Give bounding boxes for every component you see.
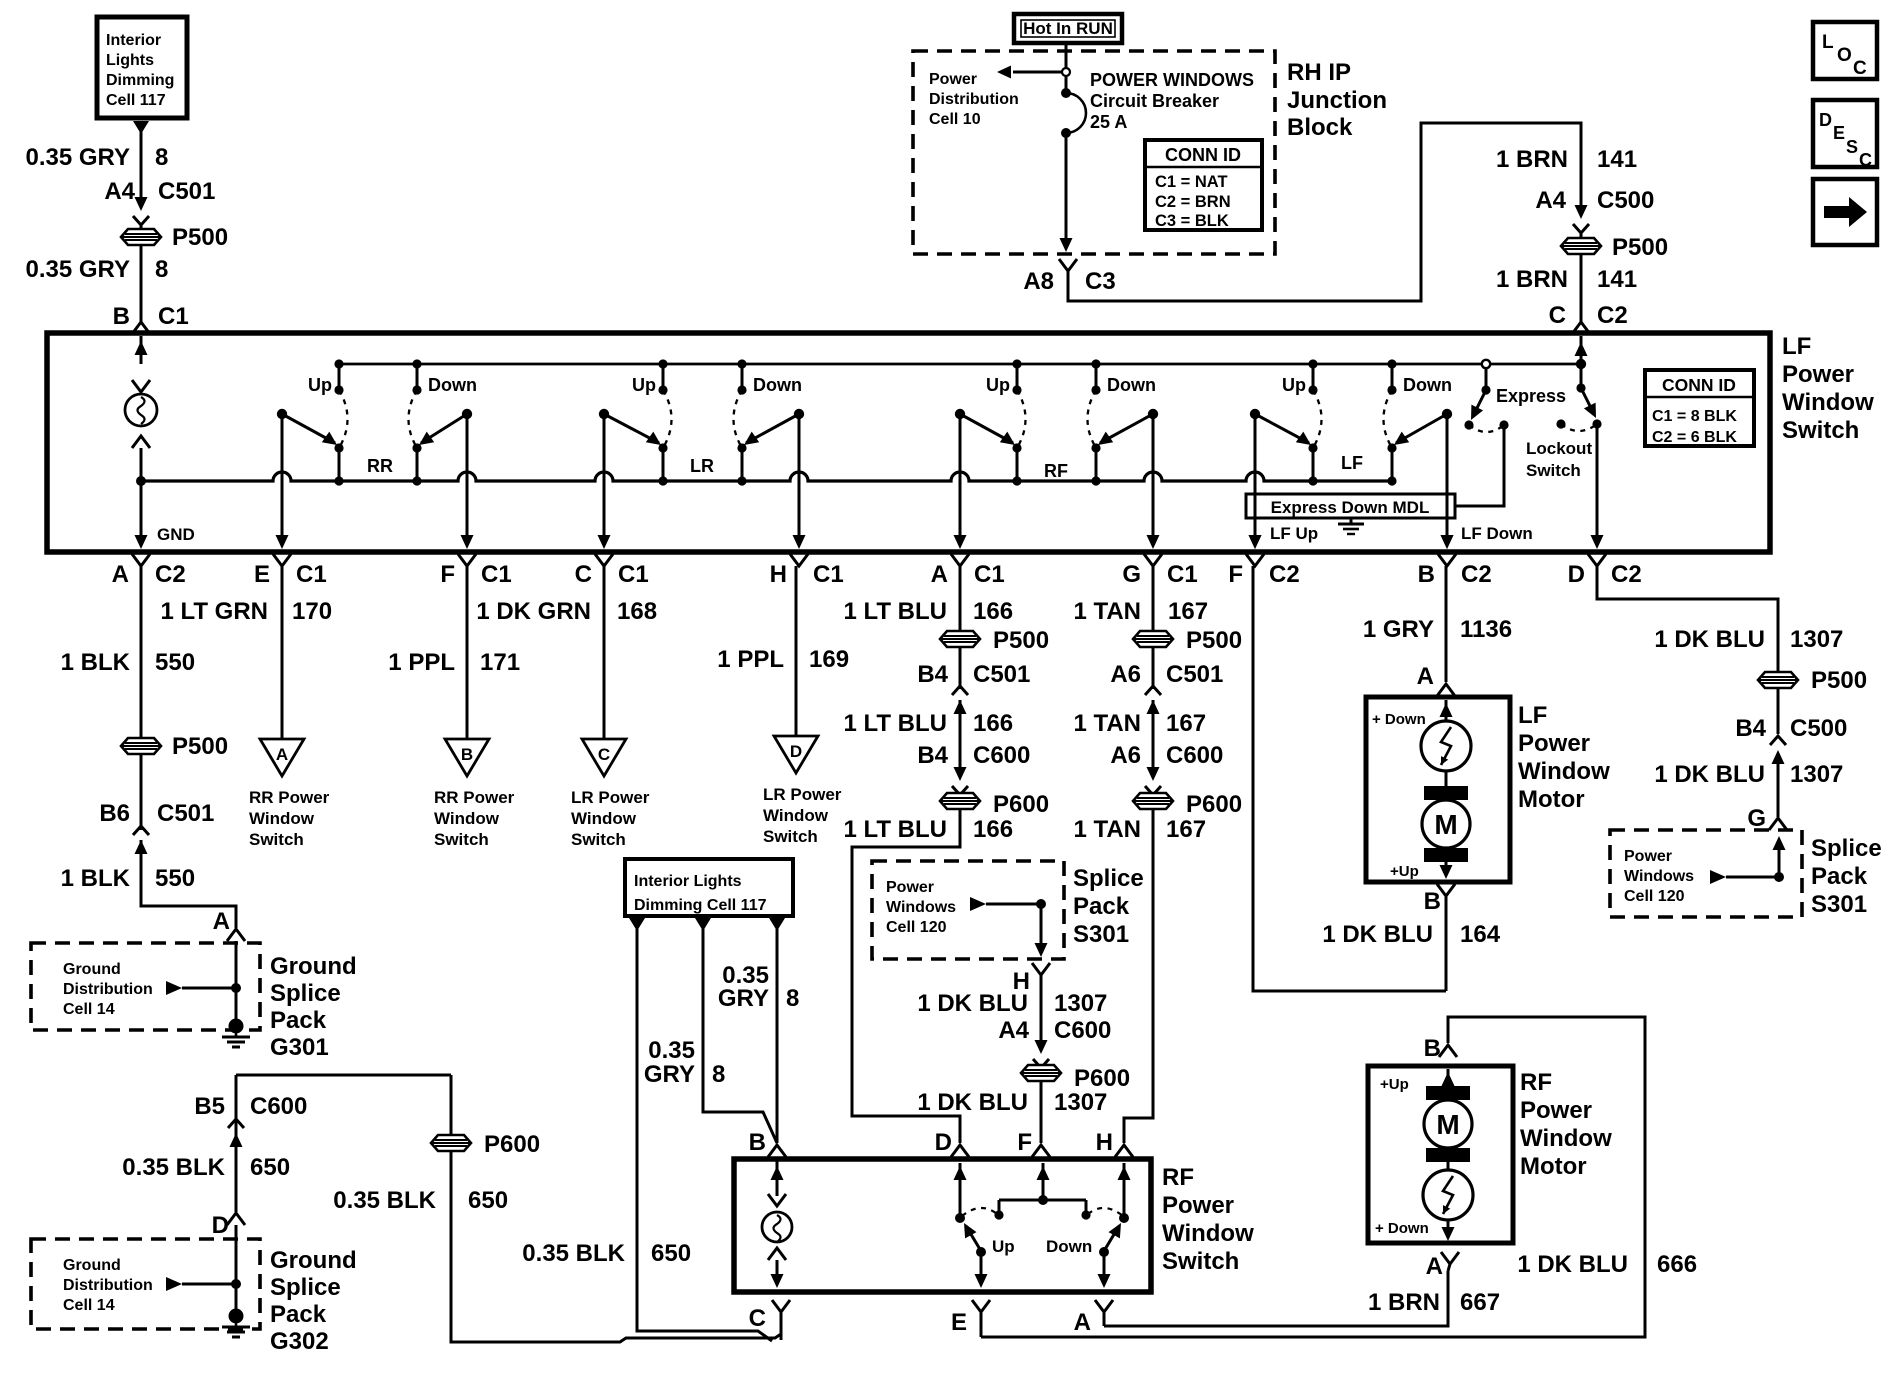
wire to P600: [959, 794, 962, 795]
svg-text:171: 171: [480, 649, 520, 676]
svg-text:P500: P500: [1186, 627, 1242, 654]
pass-through grommet P600 (middle): [1021, 1065, 1061, 1081]
icon box LOC: [1813, 22, 1877, 79]
switch LF Down blade: [1396, 414, 1447, 443]
svg-text:B6: B6: [99, 800, 130, 827]
wire 1 TAN 167 from P600 to RF switch pin H: [1124, 809, 1153, 1143]
dashed box: splice pack S301 middle (Power Windows Cell 120): [872, 861, 1064, 959]
svg-text:Cell 14: Cell 14: [63, 1297, 115, 1314]
svg-text:1 GRY: 1 GRY: [1363, 616, 1434, 643]
output pin C of connector C1 at LF switch bottom: [595, 554, 613, 566]
triangle connector B: [445, 739, 489, 776]
wire 1 BLK 550 to ground splice pack G301: [141, 840, 236, 928]
pass-through grommet P600 (TAN): [1133, 793, 1173, 809]
svg-text:C500: C500: [1790, 715, 1847, 742]
pass-through grommet P500 (left): [121, 229, 161, 245]
switch LF Down tip stub to ground bus: [1391, 448, 1394, 481]
svg-text:M: M: [1434, 809, 1457, 840]
wire 0.35 GRY 8 from Interior Lights box to C501: [133, 121, 149, 134]
switch RR Up tip stub to ground bus: [338, 448, 341, 481]
svg-text:650: 650: [468, 1187, 508, 1214]
wire from Hot In RUN into junction block: [1065, 43, 1068, 93]
svg-text:C2: C2: [1269, 561, 1300, 588]
wire 1 BRN 141 from A8 C3 to C500 (routing): [1068, 123, 1581, 301]
switch LF Up contact stub: [1312, 364, 1315, 390]
output pin A of connector C2 at LF switch bottom: [132, 554, 150, 566]
svg-text:Distribution: Distribution: [63, 981, 153, 998]
wire into ground G301: [235, 941, 238, 1020]
svg-text:C1: C1: [481, 561, 512, 588]
svg-text:LF: LF: [1782, 333, 1811, 360]
svg-text:Pack: Pack: [270, 1007, 327, 1034]
svg-text:Power: Power: [1518, 730, 1590, 757]
svg-text:A: A: [1074, 1309, 1091, 1336]
switch LF Up dashed throw arc: [1313, 390, 1322, 448]
svg-text:C3 = BLK: C3 = BLK: [1155, 212, 1229, 230]
switch LR Down pivot wire to output pin: [798, 414, 801, 546]
pass-through grommet P500 (ground column): [121, 738, 161, 754]
svg-text:Up: Up: [986, 375, 1010, 395]
wire LF Down pivot through MDL box: [1446, 414, 1449, 546]
svg-text:8: 8: [155, 144, 168, 171]
svg-text:650: 650: [250, 1154, 290, 1181]
switch RR Up blade: [282, 414, 335, 443]
wire 1 BRN 667 from RF switch pin A to RF motor pin A: [1104, 1271, 1448, 1326]
svg-text:Window: Window: [434, 809, 500, 828]
svg-text:C501: C501: [157, 800, 214, 827]
svg-text:1307: 1307: [1790, 761, 1843, 788]
svg-text:550: 550: [155, 865, 195, 892]
svg-text:1 DK BLU: 1 DK BLU: [917, 990, 1028, 1017]
svg-text:S301: S301: [1073, 921, 1129, 948]
svg-text:Power: Power: [1520, 1097, 1592, 1124]
output pin G of connector C1 at LF switch bottom: [1144, 554, 1162, 566]
svg-text:F: F: [1228, 561, 1243, 588]
svg-text:1 LT BLU: 1 LT BLU: [843, 598, 947, 625]
wire 1 BRN 141 from P500 to LF switch pin C C2: [1580, 254, 1583, 322]
svg-text:Cell 10: Cell 10: [929, 111, 981, 128]
svg-text:POWER WINDOWS: POWER WINDOWS: [1090, 70, 1254, 90]
svg-text:Power: Power: [1782, 361, 1854, 388]
wire 0.35 BLK 650 through P600 to RF switch pin C: [450, 1075, 453, 1135]
wire 1 DK BLU 164 from LF motor pin B: [1445, 896, 1448, 991]
svg-text:G302: G302: [270, 1328, 329, 1355]
svg-text:166: 166: [973, 598, 1013, 625]
svg-text:LF: LF: [1518, 702, 1547, 729]
svg-text:Power: Power: [929, 71, 977, 88]
switch RR Down dashed throw arc: [409, 390, 418, 448]
svg-text:C3: C3: [1085, 268, 1116, 295]
triangle connector D: [774, 736, 818, 773]
ground splice pack G302 ground symbol: [229, 1309, 244, 1324]
svg-text:C600: C600: [250, 1093, 307, 1120]
switch LF Up tip stub to ground bus: [1312, 448, 1315, 481]
svg-text:1307: 1307: [1054, 990, 1107, 1017]
svg-text:1 DK BLU: 1 DK BLU: [1322, 921, 1433, 948]
svg-text:C2: C2: [155, 561, 186, 588]
svg-text:LF Up: LF Up: [1270, 524, 1318, 543]
switch RF Down blade: [1100, 414, 1153, 443]
component box: RF Power Window Motor: [1368, 1066, 1513, 1243]
wire 0.35 BLK 650 from P600 down and right to pin C: [451, 1151, 781, 1342]
svg-text:E: E: [254, 561, 270, 588]
svg-text:Splice: Splice: [270, 980, 341, 1007]
svg-text:P600: P600: [993, 791, 1049, 818]
svg-text:Switch: Switch: [763, 827, 818, 846]
svg-text:S301: S301: [1811, 891, 1867, 918]
svg-text:1 DK BLU: 1 DK BLU: [1517, 1251, 1628, 1278]
svg-text:Ground: Ground: [270, 1247, 357, 1274]
svg-text:D: D: [1819, 110, 1832, 130]
svg-text:B: B: [113, 303, 130, 330]
switch LF Up pivot wire to output pin: [1254, 414, 1257, 546]
svg-text:+ Down: + Down: [1372, 711, 1426, 728]
arrow into splice G301: [166, 981, 182, 995]
svg-text:8: 8: [155, 256, 168, 283]
LF motor thermal protector: [1421, 721, 1471, 771]
pass-through grommet P500 (TAN): [1133, 631, 1173, 647]
svg-text:Power: Power: [886, 879, 934, 896]
RF switch E output wire: [980, 1252, 983, 1283]
svg-text:0.35 BLK: 0.35 BLK: [333, 1187, 436, 1214]
switch RF Down pivot wire to output pin: [1152, 414, 1155, 546]
RF motor entry arrow and +Up label: [1447, 1069, 1450, 1086]
svg-text:L: L: [1822, 32, 1834, 53]
svg-text:A6: A6: [1110, 661, 1141, 688]
svg-text:Interior: Interior: [106, 32, 161, 49]
svg-text:Junction: Junction: [1287, 87, 1387, 114]
switch LF Down pivot wire to output pin: [1446, 414, 1449, 546]
svg-text:Up: Up: [632, 375, 656, 395]
wire from circuit breaker to pin A8 C3: [1065, 133, 1068, 240]
switch LR Up contact stub: [662, 364, 665, 390]
express down module box: Express Down MDL: [1246, 494, 1455, 518]
pass-through grommet P600 (LT BLU): [940, 793, 980, 809]
wire 1 PPL 169 from pin H C1 to LR switch connector D: [795, 566, 798, 736]
wire 1 BRN 141 down to C500: [1580, 150, 1583, 207]
svg-text:P500: P500: [993, 627, 1049, 654]
switch RF Up dashed throw arc: [1017, 390, 1026, 448]
switch LF Down dashed throw arc: [1384, 390, 1393, 448]
svg-text:+Up: +Up: [1390, 863, 1419, 880]
svg-text:C: C: [575, 561, 592, 588]
wire LF Up pivot through MDL box: [1254, 414, 1257, 546]
svg-text:LR: LR: [690, 456, 714, 476]
wire 1 GRY 1136 from pin B C2 to LF motor pin A: [1445, 566, 1448, 682]
wire 0.35 GRY 8 from C501 to P500: [140, 225, 143, 229]
svg-text:170: 170: [292, 598, 332, 625]
switch RF Down tip stub to ground bus: [1095, 448, 1098, 481]
wire 1 BLK 550 from pin A C2 to P500: [140, 566, 143, 737]
component box: Interior Lights Dimming Cell 117 (top left): [97, 17, 187, 118]
arrow into splice G302: [166, 1277, 182, 1291]
circuit breaker POWER WINDOWS 25 A: [1061, 88, 1071, 98]
svg-text:A8: A8: [1023, 268, 1054, 295]
svg-text:Down: Down: [1107, 375, 1156, 395]
svg-text:GRY: GRY: [644, 1061, 695, 1088]
RF switch D input and Up blade: [959, 1163, 962, 1218]
svg-text:550: 550: [155, 649, 195, 676]
svg-text:Pack: Pack: [1811, 863, 1868, 890]
component box: RF Power Window Switch: [734, 1159, 1151, 1292]
svg-text:H: H: [1096, 1129, 1113, 1156]
power feed box: Hot In RUN: [1014, 14, 1122, 43]
internal top bus of LF switch: [339, 363, 1581, 366]
svg-text:B: B: [1424, 1035, 1441, 1062]
wire 0.35 GRY 8 from dimming box (middle drop): [695, 918, 711, 931]
svg-text:1 TAN: 1 TAN: [1073, 710, 1141, 737]
switch RR Down contact stub: [416, 364, 419, 390]
switch RF Up pivot wire to output pin: [959, 414, 962, 546]
svg-text:C501: C501: [973, 661, 1030, 688]
svg-text:C2: C2: [1611, 561, 1642, 588]
svg-text:A: A: [1417, 663, 1434, 690]
svg-text:Switch: Switch: [434, 830, 489, 849]
switch LF Down contact stub: [1391, 364, 1394, 390]
svg-text:D: D: [212, 1212, 229, 1239]
svg-text:Power: Power: [1162, 1192, 1234, 1219]
wire from lockout to output pin D: [1596, 424, 1599, 546]
pass-through grommet P500 (LT BLU): [940, 631, 980, 647]
svg-text:P500: P500: [172, 224, 228, 251]
svg-text:G301: G301: [270, 1034, 329, 1061]
switch RF Up tip stub to ground bus: [1016, 448, 1019, 481]
wire 0.35 GRY 8 from dimming box (right drop): [769, 918, 785, 931]
svg-text:C501: C501: [158, 178, 215, 205]
svg-text:LR Power: LR Power: [571, 788, 650, 807]
svg-text:1307: 1307: [1790, 626, 1843, 653]
switch RF Down contact stub: [1095, 364, 1098, 390]
svg-text:Down: Down: [753, 375, 802, 395]
output pin D of connector C2 at LF switch bottom: [1588, 554, 1606, 566]
switch RR Up pivot wire to output pin: [281, 414, 284, 546]
svg-text:LF Down: LF Down: [1461, 524, 1533, 543]
svg-text:C600: C600: [1054, 1017, 1111, 1044]
wire to connector C501 pin A6: [1152, 647, 1155, 689]
wire from express contact to Express Down MDL: [1455, 425, 1504, 506]
svg-text:167: 167: [1166, 710, 1206, 737]
wire 1 DK BLU 1307 from S301 to C600: [1040, 975, 1043, 1046]
svg-text:1 TAN: 1 TAN: [1073, 816, 1141, 843]
svg-text:E: E: [1833, 123, 1845, 143]
svg-text:C1: C1: [813, 561, 844, 588]
triangle connector A: [260, 739, 304, 776]
switch RR Down pivot wire to output pin: [466, 414, 469, 546]
svg-text:1 TAN: 1 TAN: [1073, 598, 1141, 625]
output pin A of connector C1 at LF switch bottom: [951, 554, 969, 566]
RF switch feed bar from pin F: [1042, 1163, 1045, 1200]
svg-text:141: 141: [1597, 266, 1637, 293]
svg-text:C: C: [598, 745, 610, 764]
svg-text:C1: C1: [158, 303, 189, 330]
wire 0.35 BLK 650 from dimming box (left drop): [629, 918, 645, 931]
svg-text:A: A: [213, 908, 230, 935]
switch LR Up dashed throw arc: [663, 390, 672, 448]
svg-text:E: E: [951, 1309, 967, 1336]
svg-text:Window: Window: [1520, 1125, 1612, 1152]
svg-text:P600: P600: [1186, 791, 1242, 818]
svg-text:O: O: [1837, 45, 1852, 66]
svg-text:LR Power: LR Power: [763, 785, 842, 804]
ground splice pack G301 ground symbol: [229, 1019, 244, 1034]
svg-text:Window: Window: [1518, 758, 1610, 785]
svg-text:A4: A4: [1535, 187, 1566, 214]
svg-text:Cell 14: Cell 14: [63, 1001, 115, 1018]
dashed box: Ground Distribution Cell 14 (G302): [31, 1239, 260, 1329]
svg-text:A4: A4: [998, 1017, 1029, 1044]
svg-text:C1: C1: [618, 561, 649, 588]
svg-text:Pack: Pack: [1073, 893, 1130, 920]
svg-text:169: 169: [809, 646, 849, 673]
svg-text:A: A: [1426, 1253, 1443, 1280]
svg-text:C: C: [1859, 150, 1872, 170]
switch RR Up contact stub: [338, 364, 341, 390]
wire to P600 (middle): [1040, 1065, 1043, 1068]
component box: Interior Lights Dimming Cell 117 (bottom): [625, 859, 793, 916]
wire from P500 to C501 pin B6: [140, 754, 143, 830]
wire 0.35 GRY 8 from P500 to LF switch pin B C1: [140, 245, 143, 322]
svg-text:C1: C1: [296, 561, 327, 588]
svg-text:B4: B4: [917, 661, 948, 688]
output pin B of connector C2 at LF switch bottom: [1438, 554, 1456, 566]
svg-text:C600: C600: [973, 742, 1030, 769]
svg-text:Pack: Pack: [270, 1301, 327, 1328]
svg-text:Windows: Windows: [1624, 868, 1694, 885]
svg-text:1 DK BLU: 1 DK BLU: [1654, 761, 1765, 788]
svg-text:Hot In RUN: Hot In RUN: [1023, 19, 1113, 38]
svg-text:D: D: [790, 742, 802, 761]
svg-text:C500: C500: [1597, 187, 1654, 214]
RF switch H input and Down blade: [1123, 1163, 1126, 1218]
svg-text:Switch: Switch: [1526, 461, 1581, 480]
svg-text:P600: P600: [484, 1131, 540, 1158]
svg-text:C1 = NAT: C1 = NAT: [1155, 173, 1228, 191]
wire 1 LT GRN 170 from pin E C1 to RR switch connector A: [281, 566, 284, 739]
wire 1 TAN 167 from pin G C1 to P500: [1152, 566, 1155, 631]
svg-text:Interior Lights: Interior Lights: [634, 873, 742, 890]
svg-text:RF: RF: [1044, 461, 1068, 481]
svg-text:Window: Window: [763, 806, 829, 825]
svg-text:0.35 BLK: 0.35 BLK: [122, 1154, 225, 1181]
wire 1 DK BLU 1307 from pin D C2 to P500: [1597, 566, 1778, 672]
switch LR Down blade: [746, 414, 799, 443]
svg-text:164: 164: [1460, 921, 1501, 948]
svg-text:Down: Down: [428, 375, 477, 395]
svg-text:G: G: [1747, 805, 1766, 832]
svg-text:Switch: Switch: [1782, 417, 1859, 444]
svg-text:P500: P500: [1811, 667, 1867, 694]
splice S301 internal arrow (right): [1710, 870, 1726, 884]
svg-text:Lights: Lights: [106, 52, 154, 69]
lockout switch: [1580, 336, 1583, 364]
svg-text:Motor: Motor: [1520, 1153, 1587, 1180]
wire 1 PPL 171 from pin F C1 to RR switch connector B: [466, 566, 469, 739]
RF switch A output wire: [1103, 1252, 1106, 1283]
RF switch illumination lamp branch: [776, 1161, 779, 1196]
RF motor exit arrow and + Down label: [1447, 1220, 1450, 1234]
svg-text:Ground: Ground: [270, 953, 357, 980]
wire to connector C500 pin B4: [1777, 688, 1780, 734]
wire 1 TAN 167 between C501 and C600: [1152, 700, 1155, 770]
wire from C500 to P500 (right): [1580, 233, 1583, 238]
svg-text:A4: A4: [104, 178, 135, 205]
svg-text:D: D: [1568, 561, 1585, 588]
svg-text:1 PPL: 1 PPL: [717, 646, 784, 673]
output pin F of connector C1 at LF switch bottom: [458, 554, 476, 566]
svg-text:0.35: 0.35: [648, 1037, 695, 1064]
wire from pin F C2 to LF motor B circuit: [1253, 566, 1446, 991]
pass-through grommet P600 (left): [431, 1135, 471, 1151]
svg-text:C1 = 8 BLK: C1 = 8 BLK: [1652, 408, 1737, 425]
dashed box: RH IP Junction Block: [913, 51, 1275, 254]
svg-text:Window: Window: [249, 809, 315, 828]
svg-text:Dimming: Dimming: [106, 72, 174, 89]
svg-text:C1: C1: [1167, 561, 1198, 588]
svg-text:A: A: [931, 561, 948, 588]
svg-text:D: D: [935, 1129, 952, 1156]
svg-text:Splice: Splice: [1073, 865, 1144, 892]
svg-text:CONN ID: CONN ID: [1662, 375, 1736, 395]
svg-text:1 BLK: 1 BLK: [61, 865, 131, 892]
svg-text:B: B: [461, 745, 473, 764]
svg-text:Splice: Splice: [270, 1274, 341, 1301]
wire into ground G302: [235, 1225, 238, 1312]
svg-text:P500: P500: [1612, 234, 1668, 261]
svg-text:Window: Window: [1162, 1220, 1254, 1247]
svg-text:Cell 117: Cell 117: [106, 92, 166, 109]
svg-text:0.35 GRY: 0.35 GRY: [26, 256, 131, 283]
svg-text:1 BRN: 1 BRN: [1496, 146, 1568, 173]
icon box DESC: [1813, 100, 1877, 167]
wire 1 DK BLU 1307 to splice pack S301 pin G: [1777, 753, 1780, 817]
svg-text:1 DK GRN: 1 DK GRN: [476, 598, 591, 625]
svg-text:167: 167: [1168, 598, 1208, 625]
icon box forward arrow: [1813, 179, 1877, 245]
svg-text:Motor: Motor: [1518, 786, 1585, 813]
svg-text:S: S: [1846, 137, 1858, 157]
dashed box: splice pack S301 right (Power Windows Cell 120): [1610, 830, 1802, 917]
ground symbol of Express Down MDL: [1350, 518, 1353, 524]
switch LR Up pivot wire to output pin: [603, 414, 606, 546]
svg-text:Down: Down: [1403, 375, 1452, 395]
wire 0.35 BLK 650 from C600 pin B5 to ground splice pack G302: [236, 1074, 451, 1077]
svg-text:141: 141: [1597, 146, 1637, 173]
svg-text:Distribution: Distribution: [63, 1277, 153, 1294]
svg-text:167: 167: [1166, 816, 1206, 843]
wire 1 DK BLU 1307 from P600 to RF switch pin F: [1040, 1081, 1043, 1143]
switch LR Up tip stub to ground bus: [662, 448, 665, 481]
svg-text:C2: C2: [1461, 561, 1492, 588]
svg-text:1 DK BLU: 1 DK BLU: [917, 1089, 1028, 1116]
switch RF Up blade: [960, 414, 1013, 443]
svg-text:1 LT BLU: 1 LT BLU: [843, 710, 947, 737]
wire 1 LT BLU 166 from pin A C1 to P500: [959, 566, 962, 631]
svg-text:1 DK BLU: 1 DK BLU: [1654, 626, 1765, 653]
svg-text:P600: P600: [1074, 1065, 1130, 1092]
switch RR Down blade: [421, 414, 467, 443]
svg-text:25 A: 25 A: [1090, 112, 1127, 132]
svg-text:B4: B4: [917, 742, 948, 769]
svg-text:+Up: +Up: [1380, 1076, 1409, 1093]
svg-text:1 LT BLU: 1 LT BLU: [843, 816, 947, 843]
svg-text:A: A: [112, 561, 129, 588]
svg-text:166: 166: [973, 710, 1013, 737]
svg-text:B: B: [1424, 888, 1441, 915]
svg-text:C2: C2: [1597, 302, 1628, 329]
svg-text:Up: Up: [992, 1237, 1015, 1256]
svg-text:Circuit Breaker: Circuit Breaker: [1090, 91, 1219, 111]
svg-text:A: A: [276, 745, 288, 764]
